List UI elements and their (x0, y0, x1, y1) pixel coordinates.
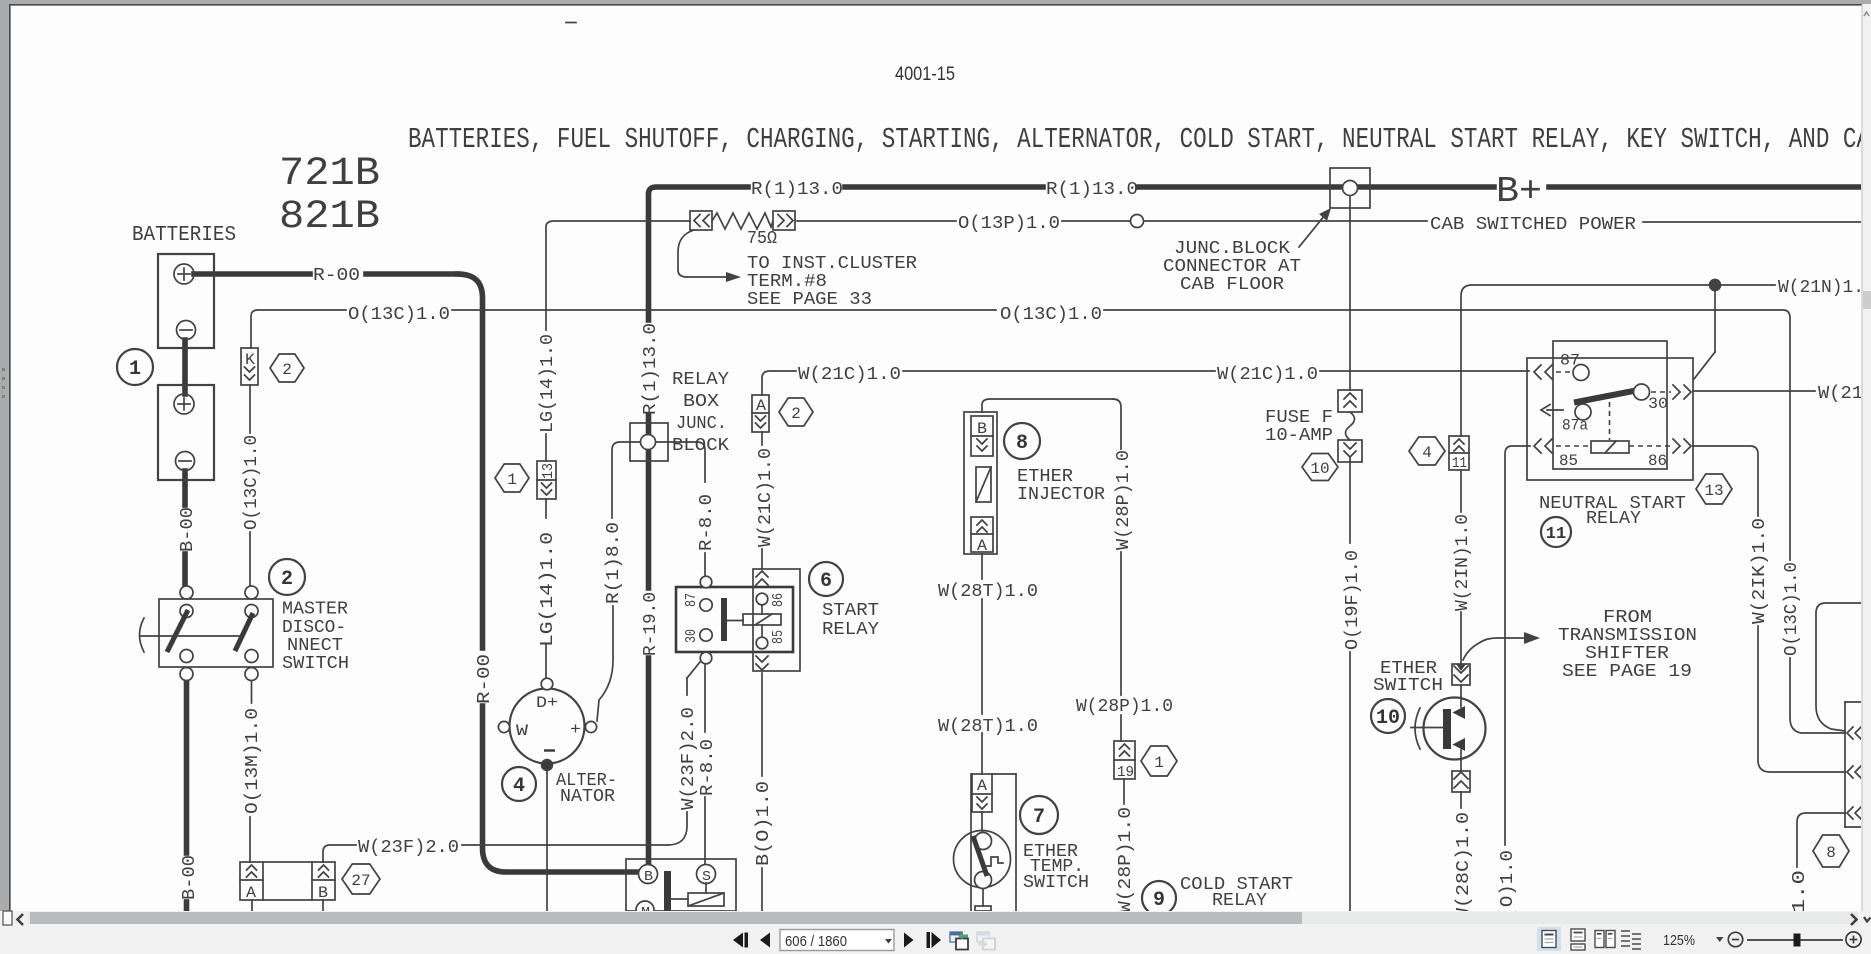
wire W(28P)1.0 to cold start relay (1113, 399, 1124, 804)
component number 1 batteries (117, 349, 153, 385)
svg-text:86: 86 (1648, 452, 1667, 470)
wire W(21C)1.0 vertical to start relay 86 (761, 432, 763, 569)
svg-text:10: 10 (1376, 707, 1400, 730)
label ETHER TEMP. SWITCH (1023, 842, 1089, 893)
component number 9 cold start relay (1142, 881, 1176, 915)
svg-text:R-00: R-00 (313, 266, 360, 286)
label FUSE F 10-AMP (1265, 408, 1333, 446)
svg-text:SEE PAGE 19: SEE PAGE 19 (1562, 662, 1692, 682)
svg-text:R-8.0: R-8.0 (697, 494, 717, 551)
svg-text:B: B (644, 869, 653, 885)
battery 1 (158, 254, 214, 348)
component number 7 ether temp switch (1020, 796, 1058, 834)
svg-text:O(13P)1.0: O(13P)1.0 (958, 214, 1060, 234)
svg-text:SHIFTER: SHIFTER (1585, 644, 1669, 664)
toolbar first page button (733, 933, 748, 948)
svg-text:2: 2 (282, 361, 292, 379)
svg-text:2: 2 (791, 405, 801, 423)
svg-text:FROM: FROM (1603, 608, 1652, 628)
svg-text:INJECTOR: INJECTOR (1017, 485, 1105, 505)
svg-text:W(28T)1.0: W(28T)1.0 (938, 717, 1038, 737)
view mode facing (1595, 931, 1615, 948)
svg-text:6: 6 (820, 570, 832, 593)
svg-text:10: 10 (1310, 460, 1329, 478)
svg-text:B+: B+ (1496, 171, 1542, 212)
component number 2 master disconnect switch (269, 559, 305, 595)
svg-text:W(28T)1.0: W(28T)1.0 (938, 582, 1038, 602)
svg-text:TERM.#8: TERM.#8 (747, 272, 827, 292)
wire from right edge to connector row 1 (1816, 603, 1862, 731)
alternator (498, 678, 596, 770)
hexagon 1 alternator connector (495, 464, 529, 492)
svg-text:B(O)1.0: B(O)1.0 (754, 781, 774, 866)
svg-text:2: 2 (281, 568, 293, 591)
svg-text:8: 8 (1016, 432, 1028, 455)
bottom bar background (0, 911, 1871, 954)
svg-text:1: 1 (1154, 754, 1164, 772)
hexagon 2 connector A (779, 398, 813, 426)
relay box junction block (630, 423, 668, 461)
wire W(21N)1.0 (1461, 285, 1775, 664)
toolbar previous page button (760, 933, 770, 948)
svg-text:4001-15: 4001-15 (895, 64, 955, 85)
svg-text:B-00: B-00 (180, 855, 200, 900)
svg-text:W(23F)2.0: W(23F)2.0 (679, 707, 699, 810)
svg-text:R(1)13.0: R(1)13.0 (641, 323, 661, 415)
start relay (676, 576, 793, 664)
svg-text:LG(14)1.0: LG(14)1.0 (538, 532, 558, 647)
start relay connector frame (753, 569, 800, 671)
junction dot on W(21N) (1710, 280, 1721, 291)
svg-text:W(21N)1.: W(21N)1. (1778, 278, 1864, 298)
right edge connector frame (1845, 702, 1862, 827)
svg-text:125%: 125% (1663, 932, 1695, 949)
arrow to instrument cluster (678, 230, 741, 282)
component number 4 alternator (502, 767, 536, 801)
resistor 75 ohm (690, 211, 795, 230)
junction circle on O(13P) line (1131, 215, 1144, 228)
wire W(21K)1.0 neutral start relay 86 to right connector (1693, 446, 1845, 772)
svg-text:13: 13 (1704, 482, 1723, 500)
svg-text:O(13C)1.0: O(13C)1.0 (1782, 562, 1802, 656)
battery 2 (158, 385, 214, 480)
connector 13 alternator (537, 461, 557, 499)
label ETHER INJECTOR (1017, 467, 1105, 505)
left gutter (0, 0, 9, 911)
label NEUTRAL START RELAY (1539, 494, 1686, 529)
svg-text:W(2IK)1.0: W(2IK)1.0 (1750, 518, 1770, 624)
connector 19 cold start relay (1114, 741, 1135, 781)
wire R-8.0 junction block to start relay 87 (656, 442, 705, 576)
svg-text:DISCO-: DISCO- (282, 618, 346, 638)
svg-text:85: 85 (1559, 452, 1578, 470)
right scrollbar strip (1862, 4, 1871, 911)
svg-text:NNECT: NNECT (287, 636, 343, 656)
svg-text:JUNC.BLOCK: JUNC.BLOCK (1174, 239, 1290, 259)
svg-text:W(21: W(21 (1818, 384, 1863, 404)
svg-text:D+: D+ (536, 694, 558, 712)
toolbar next view button disabled (977, 932, 995, 950)
arrow junc block callout (1299, 208, 1331, 247)
toolbar previous view button (950, 932, 968, 950)
svg-text:MASTER: MASTER (282, 600, 348, 620)
svg-text:O(13C)1.0: O(13C)1.0 (1000, 305, 1102, 325)
ether switch connector chevron upper (1452, 664, 1470, 685)
svg-text:ETHER: ETHER (1017, 467, 1073, 487)
hexagon 13 neutral start relay connector (1696, 474, 1732, 504)
label RELAY BOX JUNC. BLOCK (672, 370, 729, 456)
master disconnect switch (140, 586, 274, 681)
svg-text:K: K (245, 351, 255, 369)
svg-text:R(1)8.0: R(1)8.0 (604, 522, 624, 604)
label START RELAY (822, 601, 879, 640)
view mode facing continuous (1621, 931, 1641, 949)
wire B-00 battery negative (thick) (185, 340, 187, 911)
svg-text:CAB SWITCHED POWER: CAB SWITCHED POWER (1430, 215, 1636, 235)
svg-text:CAB FLOOR: CAB FLOOR (1180, 275, 1284, 295)
neutral start relay (1527, 341, 1693, 480)
wire O(13C)1.0 battery to master switch (249, 385, 251, 586)
component number 10 ether switch (1371, 699, 1405, 733)
svg-text:7: 7 (1033, 806, 1045, 829)
svg-text:RELAY: RELAY (672, 370, 729, 390)
svg-text:R-00: R-00 (475, 654, 495, 704)
svg-text:BATTERIES: BATTERIES (132, 224, 236, 247)
wire from neutral start relay 85 down (1505, 446, 1530, 845)
wire O(13P)1.0 / CAB SWITCHED POWER (546, 221, 1862, 330)
label MASTER DISCONNECT SWITCH (282, 600, 349, 675)
svg-text:O(13M)1.0: O(13M)1.0 (243, 708, 263, 814)
component number 8 ether injector (1004, 423, 1040, 459)
ether temp switch (954, 774, 1017, 911)
zoom slider (1747, 934, 1843, 947)
wire LG(14)1.0 to alternator D+ (545, 434, 547, 679)
hexagon 1 cold start relay connector (1141, 746, 1177, 776)
svg-text:87a: 87a (1562, 417, 1588, 435)
horizontal scrollbar (3, 911, 1871, 925)
hexagon 27 connector (342, 864, 380, 894)
label JUNC.BLOCK CONNECTOR AT CAB FLOOR (1163, 239, 1301, 295)
component number 11 neutral start relay (1541, 517, 1571, 547)
svg-text:O(19F)1.0: O(19F)1.0 (1343, 550, 1363, 650)
svg-text:B: B (977, 420, 987, 438)
svg-text:11: 11 (1452, 455, 1467, 472)
starter motor (626, 859, 736, 921)
wire W(28T)1.0 ether injector to temp switch (982, 399, 1113, 831)
connector K (241, 348, 258, 385)
top gutter (0, 0, 1871, 4)
svg-text:W(28P)1.0: W(28P)1.0 (1116, 807, 1136, 913)
svg-text:W(23F)2.0: W(23F)2.0 (358, 838, 459, 858)
connector A start relay feed (752, 395, 769, 432)
svg-text:BLOCK: BLOCK (672, 436, 729, 456)
svg-text:27: 27 (351, 872, 370, 890)
scan speck (566, 22, 576, 24)
wire B(O)1.0 start relay 85 down (761, 673, 763, 911)
wire R-00 battery positive feed (thick) (194, 274, 639, 872)
zoom dropdown caret (1716, 937, 1724, 942)
svg-text:R-19.0: R-19.0 (641, 592, 661, 656)
svg-text:B-00: B-00 (178, 507, 198, 552)
svg-text:SWITCH: SWITCH (282, 654, 349, 674)
svg-text:BATTERIES, FUEL SHUTOFF, CHARG: BATTERIES, FUEL SHUTOFF, CHARGING, START… (408, 123, 1870, 156)
svg-text:SWITCH: SWITCH (1373, 676, 1443, 696)
svg-text:9: 9 (1153, 889, 1165, 912)
svg-text:W(28C)1.0: W(28C)1.0 (1454, 812, 1474, 920)
hexagon 2 connector K (270, 354, 304, 382)
ether injector (964, 412, 997, 555)
svg-text:W(28P)1.0: W(28P)1.0 (1114, 450, 1134, 550)
svg-text:TO INST.CLUSTER: TO INST.CLUSTER (747, 254, 917, 274)
svg-text:R-8.0: R-8.0 (698, 739, 718, 796)
svg-text:O(13C)1.0: O(13C)1.0 (242, 435, 262, 530)
svg-text:19: 19 (1117, 764, 1134, 781)
wire R(1)13.0 / B+ bus (thick) (649, 187, 1863, 866)
label COLD START RELAY (1180, 875, 1293, 911)
svg-text:+: + (570, 721, 581, 740)
zoom out button (1728, 932, 1742, 946)
view mode single page active (1537, 927, 1561, 951)
note TO INST.CLUSTER TERM.#8 SEE PAGE 33 (747, 254, 917, 310)
svg-text:TRANSMISSION: TRANSMISSION (1558, 626, 1697, 646)
svg-text:4: 4 (1422, 444, 1432, 462)
svg-text:W(21C)1.0: W(21C)1.0 (798, 365, 901, 385)
zoom in button (1846, 932, 1861, 947)
ether switch connector chevron lower (1452, 771, 1470, 792)
svg-text:87: 87 (683, 593, 700, 607)
connector 11 transmission shifter (1449, 436, 1469, 472)
svg-text:13: 13 (540, 463, 557, 479)
svg-text:W(21C)1.0: W(21C)1.0 (1217, 365, 1318, 385)
wire ether switch to transistor and W(28C)1.0 (1460, 685, 1462, 808)
wire from junction block to fuse F and O(19F)1.0 (1349, 196, 1351, 911)
toolbar page number box 606 / 1860 (780, 930, 894, 951)
svg-text:821B: 821B (279, 195, 380, 240)
note FROM TRANSMISSION SHIFTER SEE PAGE 19 (1558, 608, 1697, 682)
svg-text:JUNC.: JUNC. (676, 414, 727, 434)
svg-text:RELAY: RELAY (822, 620, 879, 640)
svg-text:721B: 721B (279, 152, 380, 197)
svg-text:4: 4 (513, 775, 525, 798)
connector 27 battery disconnect (240, 862, 335, 911)
svg-text:RELAY: RELAY (1586, 509, 1641, 529)
svg-text:R(1)13.0: R(1)13.0 (1046, 180, 1138, 200)
svg-text:10-AMP: 10-AMP (1265, 426, 1333, 446)
svg-text:75Ω: 75Ω (747, 229, 777, 249)
svg-text:BOX: BOX (683, 392, 719, 412)
toolbar next page button (904, 933, 914, 948)
svg-text:1: 1 (507, 471, 517, 489)
svg-text:11: 11 (1546, 525, 1566, 544)
svg-text:RELAY: RELAY (1212, 891, 1267, 911)
svg-text:A: A (977, 537, 987, 555)
svg-text:W(28P)1.0: W(28P)1.0 (1076, 697, 1173, 717)
component number 6 start relay (809, 562, 843, 596)
wire alternator ground (546, 770, 548, 911)
svg-text:CONNECTOR AT: CONNECTOR AT (1163, 257, 1301, 277)
svg-text:W(21C)1.0: W(21C)1.0 (756, 448, 776, 547)
svg-text:1: 1 (129, 358, 141, 381)
wire W(21C)1.0 horizontal (762, 371, 1529, 395)
wire R-8.0 start relay 30 to starter S (704, 664, 706, 864)
wire W(23F)2.0 alternator output branch (323, 662, 700, 862)
wire R(1)8.0 junction block to alternator + (597, 442, 640, 721)
svg-text:8: 8 (1826, 844, 1836, 862)
fuse F 10-AMP (1338, 390, 1362, 462)
svg-text:85: 85 (770, 630, 787, 644)
svg-text:SEE PAGE 33: SEE PAGE 33 (747, 290, 872, 310)
svg-text:A: A (756, 397, 766, 415)
view mode continuous (1571, 929, 1585, 950)
wire O(13C)1.0 main bus (251, 310, 1845, 733)
svg-text:LG(14)1.0: LG(14)1.0 (538, 334, 558, 433)
wire W(21...) from neutral start relay 30 to right edge (1693, 390, 1815, 392)
svg-text:606 / 1860: 606 / 1860 (785, 933, 847, 950)
svg-text:FUSE F: FUSE F (1265, 408, 1333, 428)
svg-text:W: W (516, 722, 528, 740)
svg-text:30: 30 (1648, 395, 1668, 413)
svg-text:SWITCH: SWITCH (1023, 873, 1089, 893)
label ALTERNATOR (556, 771, 617, 807)
arrow from transmission shifter (1463, 632, 1540, 660)
svg-text:87: 87 (1560, 352, 1580, 370)
svg-text:O(13C)1.0: O(13C)1.0 (348, 305, 450, 325)
hexagon 10 fuse connector (1302, 454, 1338, 481)
svg-text:R(1)13.0: R(1)13.0 (751, 180, 843, 200)
hexagon 4 transmission shifter connector (1409, 437, 1445, 465)
label ETHER SWITCH (1373, 659, 1443, 696)
svg-text:A: A (977, 777, 987, 795)
svg-text:86: 86 (770, 593, 787, 607)
junction block connector at cab floor (1330, 168, 1370, 208)
wire connector row 3 down (1797, 813, 1845, 867)
svg-text:30: 30 (683, 629, 700, 643)
ether switch transistor (1411, 697, 1486, 760)
svg-text:NATOR: NATOR (560, 787, 615, 807)
hexagon 8 right connector (1813, 835, 1849, 867)
wire O(13M)1.0 master switch to connector A (250, 680, 252, 862)
toolbar last page button (927, 932, 942, 948)
svg-text:START: START (822, 601, 879, 621)
svg-text:W(2IN)1.0: W(2IN)1.0 (1453, 514, 1473, 611)
